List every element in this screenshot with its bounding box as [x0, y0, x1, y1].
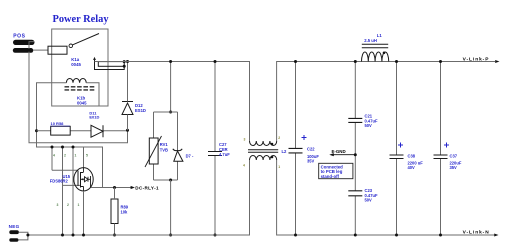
- svg-text:4: 4: [243, 164, 245, 168]
- relay contact K1a body: [48, 46, 67, 54]
- diode D11: [91, 125, 103, 137]
- node C38 bottom: [395, 234, 398, 237]
- node NEG junction: [26, 234, 29, 237]
- note box connected to PCB leg stand-off: [319, 163, 353, 178]
- svg-text:2: 2: [64, 154, 66, 158]
- node C27 top: [214, 60, 217, 63]
- node C27 bottom: [214, 234, 217, 237]
- wire POS upper pin to bypass vertical and line B: [29, 42, 128, 143]
- relay K1 box outline: [52, 29, 108, 106]
- svg-text:0045: 0045: [71, 62, 81, 67]
- svg-text:3: 3: [244, 138, 246, 142]
- svg-text:4: 4: [53, 154, 55, 158]
- wire top rail secondary with V-Link-P: [277, 62, 495, 142]
- wire snubber to bottom rail: [170, 180, 172, 235]
- wire POS lower pin to K1a contact: [33, 49, 48, 51]
- svg-text:50V: 50V: [365, 123, 373, 128]
- svg-text:stand-off: stand-off: [321, 174, 340, 179]
- svg-text:2: 2: [67, 203, 69, 207]
- svg-text:TVB: TVB: [160, 147, 168, 152]
- svg-text:Power Relay: Power Relay: [53, 14, 110, 25]
- transformer L2 primary top winding: [250, 141, 277, 146]
- svg-text:40V: 40V: [408, 165, 416, 170]
- svg-text:V-Link-P: V-Link-P: [463, 57, 490, 63]
- wire snubber left branch: [153, 112, 155, 180]
- inductor L1 winding: [362, 52, 389, 62]
- capacitor C23 plates: [348, 191, 362, 196]
- connector J-POS pin 1: [13, 40, 35, 45]
- relay contact K1a fixed contact bar: [98, 62, 124, 67]
- node POS junction: [28, 49, 31, 52]
- node rail tap snubber: [169, 60, 172, 63]
- svg-text:POS: POS: [13, 33, 25, 39]
- net arrow V-Link-N: [494, 234, 498, 237]
- wire feed to snubber: [170, 62, 172, 113]
- node R89 bottom: [113, 234, 116, 237]
- connector J-NEG pin 1: [9, 230, 19, 234]
- node contact bracket top: [123, 60, 126, 63]
- resistor R89: [111, 199, 118, 224]
- node E-GND on rail: [354, 153, 357, 156]
- node stub 1: [51, 146, 54, 149]
- node bottom rail snubber: [169, 234, 172, 237]
- node bottom rail stub3: [72, 234, 75, 237]
- relay contact K1a throw pin arrow: [93, 57, 96, 60]
- svg-text:D7 -: D7 -: [186, 154, 194, 159]
- node snubber top: [169, 111, 172, 114]
- node bottom rail stub2: [61, 234, 64, 237]
- wire coil left lead down to R58 line and line C: [37, 83, 103, 188]
- svg-text:RV1: RV1: [160, 142, 169, 147]
- node C37 bottom: [439, 234, 442, 237]
- svg-text:0045: 0045: [77, 101, 87, 106]
- transistor U15 gate bar: [77, 171, 79, 187]
- node bottom rail mosfet: [82, 234, 85, 237]
- svg-text:E-GND: E-GND: [332, 149, 346, 154]
- svg-text:10 R58: 10 R58: [51, 121, 65, 126]
- wire snubber top node: [154, 111, 178, 113]
- wire R58 D11 line: [37, 130, 128, 132]
- transistor U15 drain bar: [88, 176, 91, 188]
- node mid rail bottom: [354, 234, 357, 237]
- node mid rail top: [354, 60, 357, 63]
- transistor U15 bottom link: [81, 187, 84, 192]
- diode D7: [174, 151, 183, 161]
- node R58 line tap: [35, 129, 38, 132]
- wire mosfet top lead: [83, 147, 85, 168]
- svg-text:V-Link-N: V-Link-N: [463, 230, 490, 236]
- node D11 D12 junction: [126, 129, 129, 132]
- capacitor C37 leads: [440, 62, 442, 236]
- wire E-GND pointer: [333, 154, 355, 156]
- wire R89 leads: [114, 188, 116, 236]
- wire drain line to DC-RLY-1: [91, 187, 131, 189]
- net arrow V-Link-P: [495, 60, 499, 63]
- transistor U15 body diode: [85, 177, 89, 182]
- svg-text:C37: C37: [450, 154, 458, 159]
- polarity plus C37: [444, 143, 449, 148]
- svg-text:DC-RLY-1: DC-RLY-1: [135, 186, 159, 191]
- svg-text:1: 1: [78, 203, 80, 207]
- wire NEG pins join: [18, 232, 28, 240]
- wire bottom rail right with V-Link-N: [277, 160, 494, 235]
- node C37 top: [439, 60, 442, 63]
- svg-text:ES1D: ES1D: [135, 108, 146, 113]
- wire snubber right branch: [177, 112, 179, 180]
- node L2 dot bottom: [271, 156, 274, 159]
- capacitor C37 plates: [434, 155, 448, 159]
- varistor RV1 body: [149, 138, 158, 164]
- transistor U15 channel bar: [80, 172, 82, 188]
- relay coil K1b core dashes row 2: [65, 89, 95, 91]
- svg-text:FDS86R2: FDS86R2: [50, 179, 69, 184]
- polarity plus C38: [398, 143, 403, 148]
- transistor U15 top link: [81, 168, 84, 173]
- capacitor C22 leads: [295, 62, 297, 236]
- svg-text:NEG: NEG: [9, 224, 20, 229]
- svg-text:3: 3: [57, 203, 59, 207]
- wire line C stub 1: [51, 147, 53, 170]
- transistor U15 source arrow: [81, 178, 85, 180]
- node C22 bottom: [294, 234, 297, 237]
- wire line C stub 3: [72, 147, 74, 235]
- svg-text:L1: L1: [377, 33, 383, 38]
- relay contact K1a blade: [72, 34, 99, 45]
- connector J-NEG pin 2: [9, 238, 18, 241]
- wire snubber bottom node: [154, 179, 178, 181]
- svg-text:1: 1: [278, 165, 280, 169]
- node L1 dot: [383, 52, 386, 55]
- node D12 top on rail: [126, 60, 129, 63]
- wire source left link: [63, 184, 81, 186]
- capacitor C38 plates: [390, 155, 404, 159]
- connector J-POS pin 2: [13, 48, 34, 53]
- svg-text:L2: L2: [282, 149, 288, 154]
- relay contact K1a bracket: [95, 62, 125, 70]
- wire top rail primary: [95, 62, 250, 142]
- inductor L1 core bars: [362, 44, 388, 48]
- svg-text:35V: 35V: [450, 165, 458, 170]
- net arrow E-GND: [329, 153, 334, 156]
- transformer L2 core: [248, 150, 278, 153]
- svg-text:C38: C38: [408, 154, 416, 159]
- wire mosfet source down: [83, 191, 85, 235]
- capacitor C38 leads: [396, 62, 398, 236]
- node L2 dot top: [271, 143, 274, 146]
- capacitor C21 plates: [348, 118, 362, 122]
- wire bottom rail left: [28, 160, 250, 235]
- svg-text:1: 1: [75, 154, 77, 158]
- transistor U15 body circle: [74, 168, 93, 191]
- svg-text:C22: C22: [307, 147, 315, 152]
- diode D12: [122, 103, 133, 115]
- wire gate line: [52, 169, 78, 171]
- node stub 3: [72, 146, 75, 149]
- svg-text:10k: 10k: [121, 210, 129, 215]
- node R89 top: [113, 186, 116, 189]
- wire mid rail with C21 C23: [354, 62, 356, 236]
- svg-text:E01D: E01D: [89, 115, 99, 120]
- polarity plus C22: [302, 135, 307, 140]
- relay contact K1a pivot: [69, 44, 73, 48]
- node C22 top: [294, 60, 297, 63]
- svg-text:50V: 50V: [365, 198, 373, 203]
- svg-text:2.5 uH: 2.5 uH: [364, 38, 377, 43]
- wire coil right lead: [86, 83, 99, 106]
- net arrow DC-RLY-1: [131, 186, 135, 189]
- svg-text:2: 2: [278, 136, 280, 140]
- relay coil K1b winding: [66, 79, 86, 83]
- wire D12 leads: [127, 62, 129, 131]
- node C38 top: [395, 60, 398, 63]
- transformer L2 bottom winding: [250, 155, 277, 160]
- capacitor C27 plates: [208, 152, 222, 156]
- capacitor C22 plates: [289, 148, 303, 153]
- wire line C stub 2: [62, 147, 64, 235]
- svg-text:4.7uF: 4.7uF: [219, 152, 230, 157]
- svg-text:35V: 35V: [307, 158, 315, 163]
- node snubber bottom: [169, 179, 172, 182]
- node stub 2: [61, 146, 64, 149]
- relay coil K1b core dashes row 1: [65, 86, 95, 88]
- node contact bracket bottom: [123, 65, 126, 68]
- resistor R58: [51, 126, 70, 135]
- capacitor C27 leads: [214, 62, 216, 236]
- varistor RV1 diagonal: [145, 136, 162, 167]
- svg-text:5: 5: [86, 154, 88, 158]
